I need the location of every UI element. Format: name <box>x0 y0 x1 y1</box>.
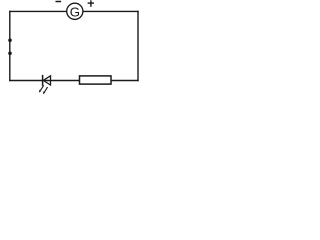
wire left vertical <box>9 11 11 82</box>
LED D1 triangle <box>43 76 50 85</box>
LED D1 cathode bar <box>42 75 44 86</box>
LED D1 emission arrow 1 <box>39 85 44 92</box>
wire bottom-middle segment <box>43 80 80 82</box>
svg-text:G: G <box>70 5 80 20</box>
polarity plus label <box>88 0 94 7</box>
polarity minus label <box>56 1 62 3</box>
wire top-left segment <box>9 10 66 12</box>
LED D1 emission arrow 2 <box>43 87 48 94</box>
wire bottom-right segment <box>111 80 139 82</box>
wire bottom-left segment <box>9 80 43 82</box>
generator G1 circle <box>67 3 83 19</box>
node junction dot lower <box>8 52 12 56</box>
wire top-right segment <box>83 10 139 12</box>
node junction dot upper <box>8 39 12 43</box>
wire right vertical <box>137 11 139 82</box>
resistor R1 box <box>80 76 112 84</box>
